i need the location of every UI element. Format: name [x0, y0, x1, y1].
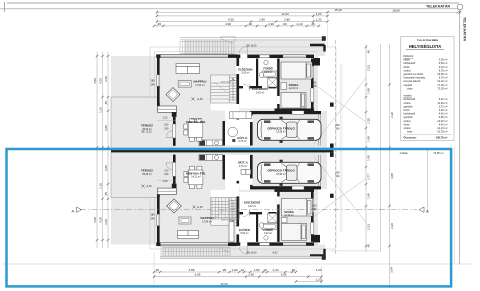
svg-text:6,70 m²: 6,70 m²	[439, 76, 448, 80]
blue highlight rectangle	[7, 149, 452, 286]
kitchen counter along party wall	[199, 140, 223, 146]
svg-text:GÉPKOCSI TÁROLÓ: GÉPKOCSI TÁROLÓ	[267, 168, 295, 173]
lower stairs crosshatch	[211, 197, 240, 219]
entry exterior stairs lower	[163, 247, 230, 256]
svg-text:±0,00: ±0,00	[251, 252, 258, 255]
svg-text:+1,35: +1,35	[197, 206, 204, 209]
roof overhang outline	[150, 47, 336, 249]
svg-text:16x17,6/28: 16x17,6/28	[221, 81, 232, 83]
svg-text:1,20: 1,20	[316, 12, 322, 16]
wall: corridor horizontal	[239, 86, 277, 89]
table box	[401, 36, 454, 140]
dim row b1	[153, 271, 297, 273]
svg-text:,90: ,90	[248, 22, 253, 26]
svg-text:0,84 m²: 0,84 m²	[439, 61, 448, 65]
svg-text:fürdő: fürdő	[404, 65, 410, 69]
svg-text:fürdő: fürdő	[404, 108, 410, 112]
walkway edge extension lower	[330, 250, 379, 252]
svg-text:17,04 m²: 17,04 m²	[437, 83, 447, 87]
carport roof cross lower	[314, 156, 366, 222]
svg-text:3,95: 3,95	[281, 273, 287, 277]
dining table lower	[184, 166, 203, 189]
svg-text:szoba: szoba	[404, 68, 411, 72]
dim row 3	[156, 20, 329, 22]
svg-text:280: 280	[336, 124, 341, 127]
svg-text:240: 240	[336, 175, 341, 178]
svg-text:5,03 m²: 5,03 m²	[240, 232, 248, 235]
svg-text:szoba: szoba	[404, 126, 411, 130]
svg-text:240: 240	[312, 85, 317, 88]
corridor door swing	[243, 84, 249, 91]
entry door swing	[239, 46, 247, 54]
svg-text:3,42 m²: 3,42 m²	[256, 91, 264, 94]
svg-text:GÉPKOCSI TÁROLÓ: GÉPKOCSI TÁROLÓ	[267, 125, 295, 130]
svg-text:4,80 m²: 4,80 m²	[439, 115, 448, 119]
svg-text:össz.:: össz.:	[407, 86, 414, 90]
svg-text:4,42 m²: 4,42 m²	[439, 112, 448, 116]
wall: fürdő-előszoba divider	[256, 59, 258, 87]
svg-text:3,42 m²: 3,42 m²	[248, 205, 256, 208]
svg-text:,45: ,45	[104, 101, 108, 106]
svg-text:közlekedő: közlekedő	[404, 112, 416, 116]
bed 1 upper	[281, 62, 312, 79]
svg-text:szoba: szoba	[404, 119, 411, 123]
svg-text:nappali: nappali	[404, 83, 413, 87]
svg-text:TELEKHATÁR: TELEKHATÁR	[426, 3, 450, 8]
svg-text:KONYHA+ÉTK.: KONYHA+ÉTK.	[186, 170, 206, 175]
svg-text:TERASZ: TERASZ	[141, 124, 153, 128]
svg-text:7-es és 8-as lakás: 7-es és 8-as lakás	[417, 39, 439, 42]
gray room fill: szoba	[277, 59, 312, 109]
sofa upper	[176, 64, 200, 74]
svg-text:3,94: 3,94	[389, 267, 393, 273]
svg-text:2,33: 2,33	[366, 65, 370, 71]
carport roof edge dashed	[335, 40, 337, 256]
svg-text:12,24 m²: 12,24 m²	[437, 126, 447, 130]
svg-text:240: 240	[164, 127, 169, 130]
svg-text:2,05: 2,05	[104, 165, 108, 171]
driveway edge lines	[340, 64, 342, 232]
dim guide verticals top	[157, 10, 328, 47]
walkway railing lower	[160, 256, 325, 258]
nightstand upper	[281, 83, 287, 90]
terrace outline upper	[111, 97, 157, 148]
svg-text:1,20: 1,20	[163, 117, 168, 120]
svg-text:12,24 m²: 12,24 m²	[289, 87, 299, 90]
wall: right exterior	[311, 59, 314, 112]
svg-text:4,55: 4,55	[189, 268, 195, 272]
wall: garage left	[250, 114, 253, 146]
coffee table diamond lower	[167, 199, 182, 213]
svg-text:15,40: 15,40	[334, 8, 342, 12]
svg-text:1,90: 1,90	[268, 22, 274, 26]
svg-text:,45: ,45	[291, 268, 296, 272]
car lower	[258, 160, 322, 186]
svg-text:1,10: 1,10	[366, 118, 370, 124]
svg-text:emelet:: emelet:	[404, 94, 413, 98]
wall: konyha left	[173, 117, 176, 146]
walkway end post lower	[322, 255, 326, 260]
table rows	[404, 54, 452, 139]
svg-text:240: 240	[151, 83, 156, 86]
svg-text:1,45: 1,45	[366, 136, 370, 142]
svg-text:6,70 m²: 6,70 m²	[238, 140, 246, 143]
svg-text:NAPPALI: NAPPALI	[201, 216, 214, 220]
section marker right	[419, 207, 424, 212]
svg-text:1,45: 1,45	[366, 88, 370, 94]
section line A-A	[80, 209, 417, 211]
svg-text:15,95 m²: 15,95 m²	[276, 131, 286, 134]
lower unit: mirrored copy	[157, 153, 334, 256]
white room fill: entry block	[239, 59, 311, 109]
svg-text:4,42 m²: 4,42 m²	[439, 122, 448, 126]
svg-text:100: 100	[164, 124, 169, 127]
wall: top exterior right rooms	[237, 54, 315, 58]
svg-text:4,30: 4,30	[99, 78, 103, 84]
bed 1 lower	[282, 199, 313, 217]
svg-text:1 lakás: 1 lakás	[400, 151, 409, 155]
svg-text:180: 180	[312, 204, 317, 207]
svg-text:+1,35: +1,35	[146, 185, 153, 188]
svg-text:HELYISÉGLISTA: HELYISÉGLISTA	[409, 44, 442, 49]
wardrobe lower nappali	[229, 222, 234, 243]
svg-text:1,90: 1,90	[248, 273, 254, 277]
sink	[264, 60, 268, 64]
svg-text:A: A	[72, 209, 75, 214]
svg-text:1,90: 1,90	[259, 18, 265, 22]
svg-text:16,60 m²: 16,60 m²	[437, 72, 447, 76]
garage door size texts	[336, 124, 341, 178]
svg-text:,45: ,45	[366, 50, 370, 55]
svg-text:1,20: 1,20	[316, 277, 322, 281]
svg-text:100: 100	[164, 169, 169, 172]
svg-text:1,20: 1,20	[163, 180, 168, 183]
svg-text:szoba: szoba	[404, 101, 411, 105]
terrace outline lower	[111, 152, 157, 197]
white room fill: hazt.h	[225, 111, 252, 146]
svg-text:240: 240	[336, 128, 341, 131]
wall: szoba divider	[277, 59, 280, 109]
svg-text:3,23 m²: 3,23 m²	[439, 65, 448, 69]
shower	[268, 78, 277, 87]
svg-text:4,50: 4,50	[93, 78, 97, 84]
carport roof cross upper	[314, 78, 366, 144]
sofa lower	[178, 231, 199, 239]
gray plot/terrace ground	[111, 40, 327, 258]
svg-text:4,50: 4,50	[93, 217, 97, 223]
svg-text:4,90: 4,90	[225, 22, 231, 26]
plot boundary top line upper	[7, 2, 459, 4]
svg-text:9,78 m²: 9,78 m²	[439, 68, 448, 72]
svg-text:közlekedő: közlekedő	[404, 97, 416, 101]
svg-text:+1,35: +1,35	[146, 131, 153, 134]
svg-text:25,09 m²: 25,09 m²	[142, 173, 152, 176]
svg-text:15,95 m²: 15,95 m²	[276, 173, 286, 176]
svg-text:280: 280	[151, 80, 156, 83]
car upper	[258, 117, 322, 143]
garage door edge	[319, 115, 321, 146]
wall: szoba bottom	[275, 109, 315, 112]
svg-text:2,10: 2,10	[297, 22, 303, 26]
svg-text:,45: ,45	[155, 268, 160, 272]
svg-text:,10: ,10	[262, 268, 267, 272]
plot boundary right line	[459, 10, 461, 264]
white landing under stairs	[211, 103, 237, 111]
wall: stair/nappali right	[236, 58, 239, 120]
svg-text:11,84 m²: 11,84 m²	[437, 101, 447, 105]
svg-text:240: 240	[312, 208, 317, 211]
svg-text:fürdő: fürdő	[404, 122, 410, 126]
svg-text:9,35: 9,35	[228, 18, 234, 22]
carport post outer	[330, 103, 334, 107]
hazt appliances lower	[241, 169, 251, 174]
svg-text:konyha-étkező: konyha-étkező	[404, 79, 421, 83]
svg-text:1,15: 1,15	[99, 183, 103, 189]
svg-text:+1,35: +1,35	[197, 98, 204, 101]
svg-text:,45: ,45	[157, 22, 162, 26]
svg-text:17,04 m²: 17,04 m²	[195, 84, 205, 87]
wall: hazt.h left	[223, 121, 226, 146]
entry canopy	[310, 45, 325, 52]
svg-text:1,90: 1,90	[232, 268, 238, 272]
svg-text:gardrób: gardrób	[404, 115, 413, 119]
svg-text:-0,02: -0,02	[272, 252, 278, 255]
svg-text:1,15: 1,15	[99, 107, 103, 113]
svg-text:2,33: 2,33	[366, 224, 370, 230]
plot boundary top line lower	[0, 8, 458, 10]
svg-text:,45: ,45	[366, 244, 370, 249]
svg-text:280: 280	[151, 214, 156, 217]
plot boundary right inner line	[453, 147, 455, 264]
bed 2 upper	[281, 93, 306, 109]
porch corner block	[314, 58, 321, 66]
dim row 4	[153, 25, 320, 27]
svg-text:6,95: 6,95	[195, 273, 201, 277]
entry exterior stairs upper	[180, 37, 235, 54]
svg-text:12,20: 12,20	[281, 12, 289, 16]
svg-text:14,21 m²: 14,21 m²	[191, 118, 201, 121]
svg-text:4,30: 4,30	[99, 217, 103, 223]
svg-text:5,03 m²: 5,03 m²	[241, 71, 249, 74]
svg-text:,10: ,10	[240, 268, 245, 272]
interior stairs	[211, 75, 237, 103]
walkway railing upper	[180, 37, 325, 40]
svg-text:NAPPALI: NAPPALI	[194, 80, 207, 84]
nightstand lower	[282, 217, 288, 223]
svg-text:3,23 m²: 3,23 m²	[264, 71, 272, 74]
dining table upper	[184, 119, 203, 142]
svg-text:3,42 m²: 3,42 m²	[439, 97, 448, 101]
dim guide verticals bottom	[154, 252, 322, 287]
wc	[260, 72, 264, 78]
window size texts lower	[151, 169, 317, 220]
svg-text:76,95 m²: 76,95 m²	[433, 151, 443, 155]
svg-text:2,80: 2,80	[284, 18, 290, 22]
svg-text:240: 240	[151, 217, 156, 220]
svg-text:,90: ,90	[282, 22, 287, 26]
svg-text:62,78 m²: 62,78 m²	[437, 130, 447, 134]
svg-text:73,03 m²: 73,03 m²	[437, 86, 447, 90]
dim row 1	[156, 11, 461, 13]
svg-text:2,10: 2,10	[273, 268, 279, 272]
svg-text:14,40 m²: 14,40 m²	[437, 119, 447, 123]
bathtub	[262, 71, 277, 77]
svg-text:1,77: 1,77	[366, 174, 370, 180]
eaves outline	[155, 52, 318, 244]
level markers	[142, 44, 279, 255]
svg-text:12,24 m²: 12,24 m²	[284, 214, 294, 217]
svg-text:,45: ,45	[310, 22, 315, 26]
hazt basin upper	[228, 127, 238, 137]
svg-text:2,20: 2,20	[390, 112, 394, 118]
dim row b3	[154, 280, 323, 286]
walkway end post upper	[322, 36, 326, 41]
svg-text:össz.:: össz.:	[407, 130, 414, 134]
svg-text:6,70 m²: 6,70 m²	[239, 165, 247, 168]
svg-text:1,45: 1,45	[366, 155, 370, 161]
dim row 2	[156, 15, 329, 17]
svg-text:3,40 m²: 3,40 m²	[439, 108, 448, 112]
svg-text:240: 240	[164, 173, 169, 176]
wall: nappali-terasz step	[157, 103, 177, 117]
svg-text:,45: ,45	[104, 192, 108, 197]
window size texts upper	[151, 80, 317, 131]
svg-text:1,90: 1,90	[254, 268, 260, 272]
svg-text:2,05: 2,05	[104, 125, 108, 131]
svg-text:136,78 m²: 136,78 m²	[436, 135, 448, 139]
svg-text:gardrób és tároló: gardrób és tároló	[404, 72, 424, 76]
svg-text:3,03 m²: 3,03 m²	[439, 58, 448, 62]
svg-text:TELEKHATÁR: TELEKHATÁR	[463, 17, 468, 41]
party wall at axis	[111, 148, 334, 153]
svg-text:3,08: 3,08	[390, 173, 394, 179]
svg-text:előtér: előtér	[404, 58, 411, 62]
wall: left exterior	[157, 56, 160, 103]
svg-text:1,40: 1,40	[366, 193, 370, 199]
tv table upper	[178, 81, 191, 88]
svg-text:3,60: 3,60	[104, 219, 108, 225]
wall: top exterior (window band)	[157, 55, 237, 58]
svg-text:TERASZ: TERASZ	[141, 169, 153, 173]
svg-text:2,20: 2,20	[390, 223, 394, 229]
coffee table diamond upper	[166, 88, 180, 102]
white room fill: nappali	[160, 58, 237, 98]
svg-text:14,21 m²: 14,21 m²	[437, 79, 447, 83]
svg-text:1,20: 1,20	[316, 268, 322, 272]
svg-text:A: A	[426, 209, 429, 214]
wall: garage top	[250, 111, 321, 115]
bed 2 lower	[282, 223, 307, 240]
svg-text:háztartási helyiség: háztartási helyiség	[404, 76, 426, 80]
svg-text:17,04 m²: 17,04 m²	[202, 220, 212, 223]
svg-text:14,21 m²: 14,21 m²	[191, 176, 201, 179]
svg-text:3,60: 3,60	[104, 76, 108, 82]
dim row b2	[153, 276, 323, 278]
plot boundary left tick	[4, 2, 6, 12]
svg-text:földszint:: földszint:	[404, 54, 415, 58]
svg-text:280: 280	[336, 172, 341, 175]
tv table lower	[179, 217, 191, 224]
plot boundary bottom line	[2, 263, 471, 265]
terrace door dim line upper	[157, 121, 176, 181]
svg-text:18,06: 18,06	[392, 8, 400, 12]
carport post at axis	[330, 144, 334, 148]
hazt counter upper	[230, 112, 252, 119]
svg-text:közlekedő: közlekedő	[404, 61, 416, 65]
svg-text:1,20: 1,20	[316, 18, 322, 22]
konyha-terasz door swing	[166, 131, 173, 138]
svg-text:,95: ,95	[222, 268, 227, 272]
svg-text:3,23 m²: 3,23 m²	[264, 232, 272, 235]
svg-text:16x17,6/28: 16x17,6/28	[221, 220, 232, 222]
svg-text:2,72 m²: 2,72 m²	[439, 104, 448, 108]
svg-text:gardrób: gardrób	[404, 104, 413, 108]
white room fill: konyha	[176, 100, 223, 146]
svg-text:±0,00: ±0,00	[251, 45, 258, 48]
plot boundary corner circle	[457, 4, 463, 10]
